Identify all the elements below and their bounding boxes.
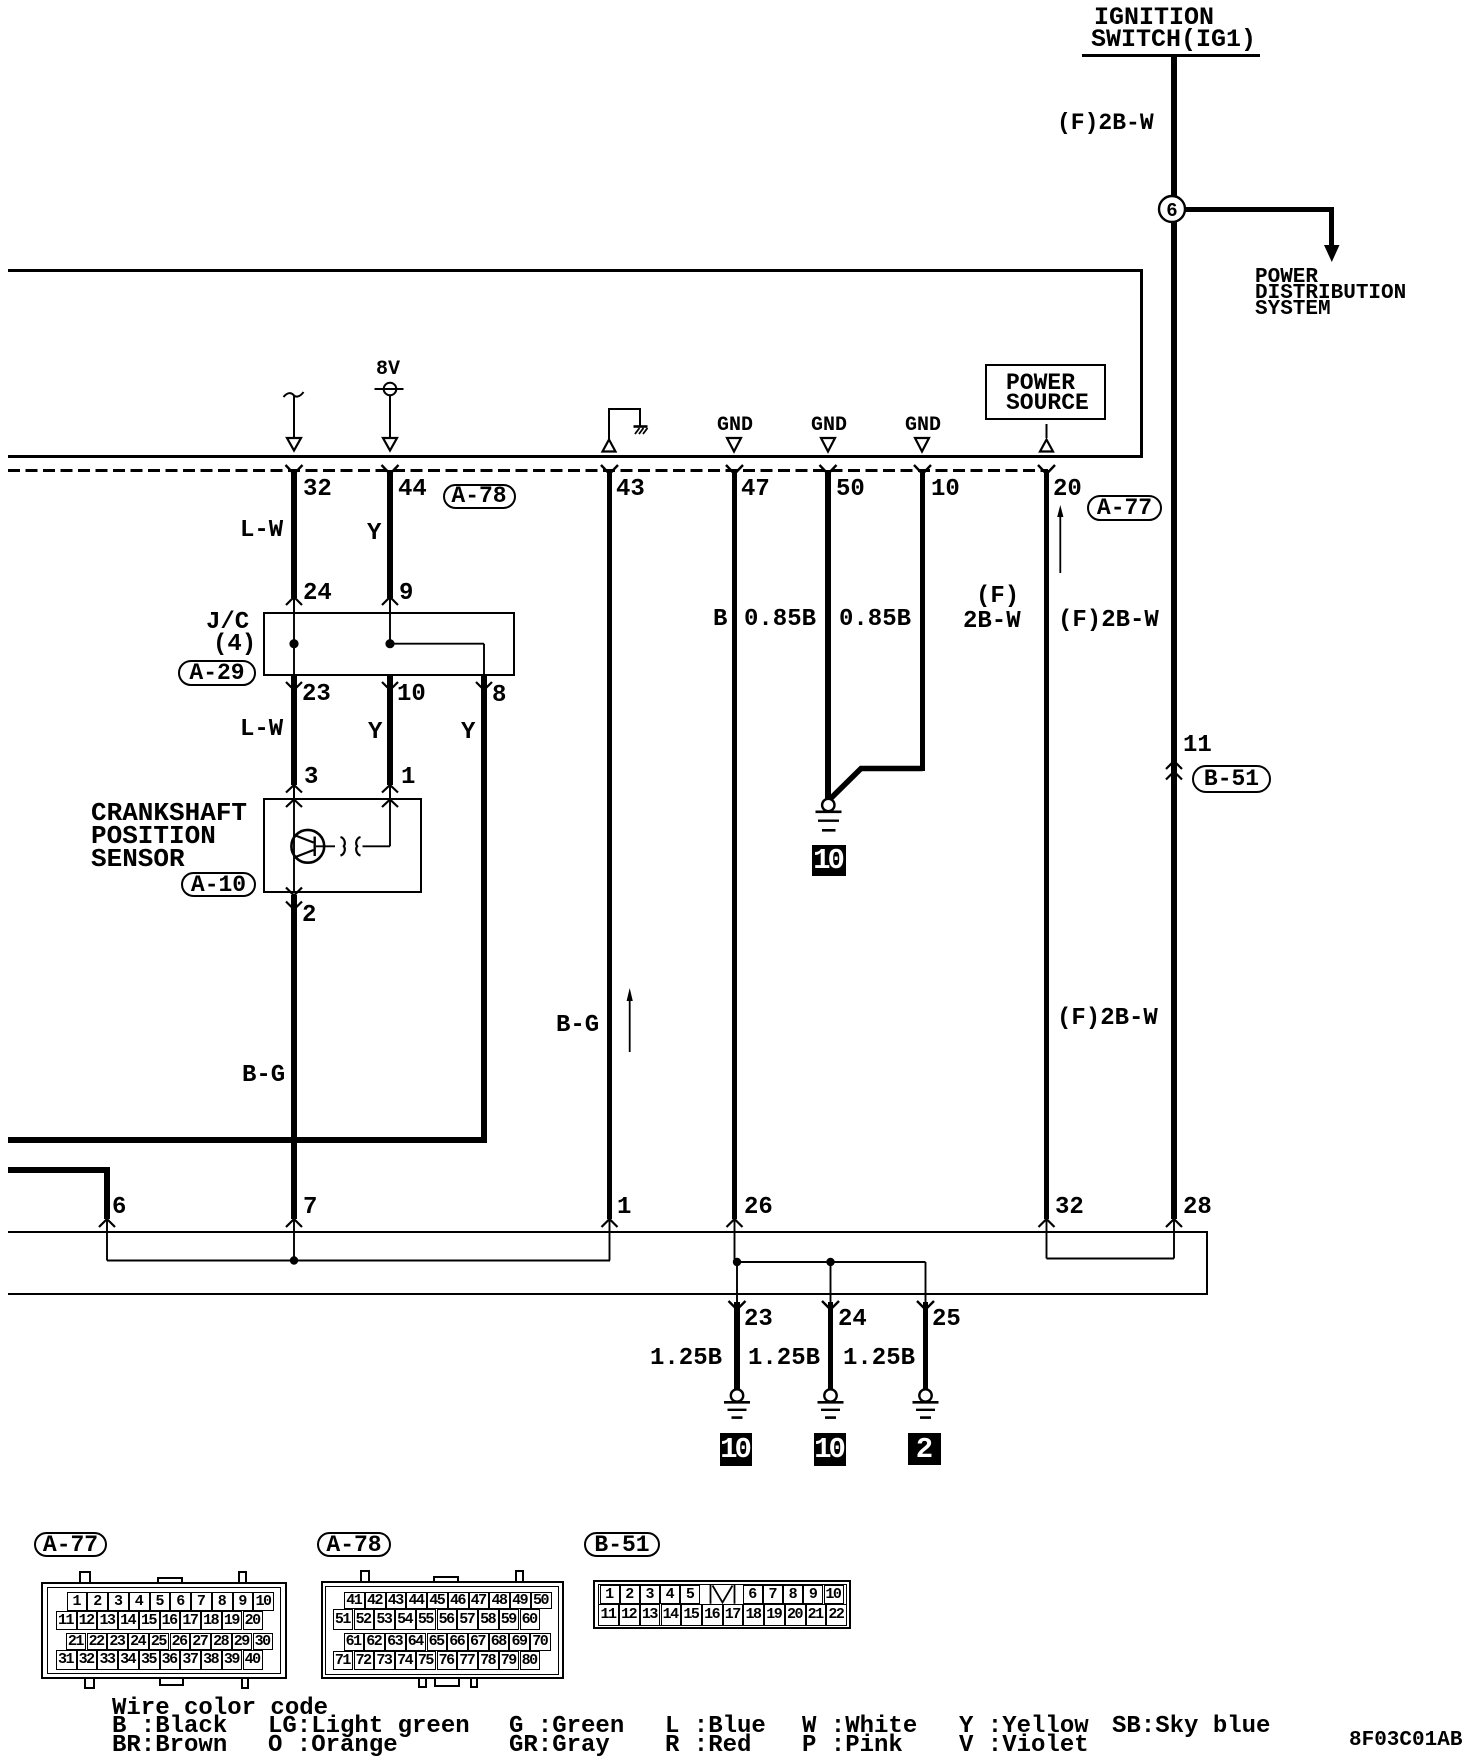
svg-text:6: 6 <box>1166 200 1177 222</box>
